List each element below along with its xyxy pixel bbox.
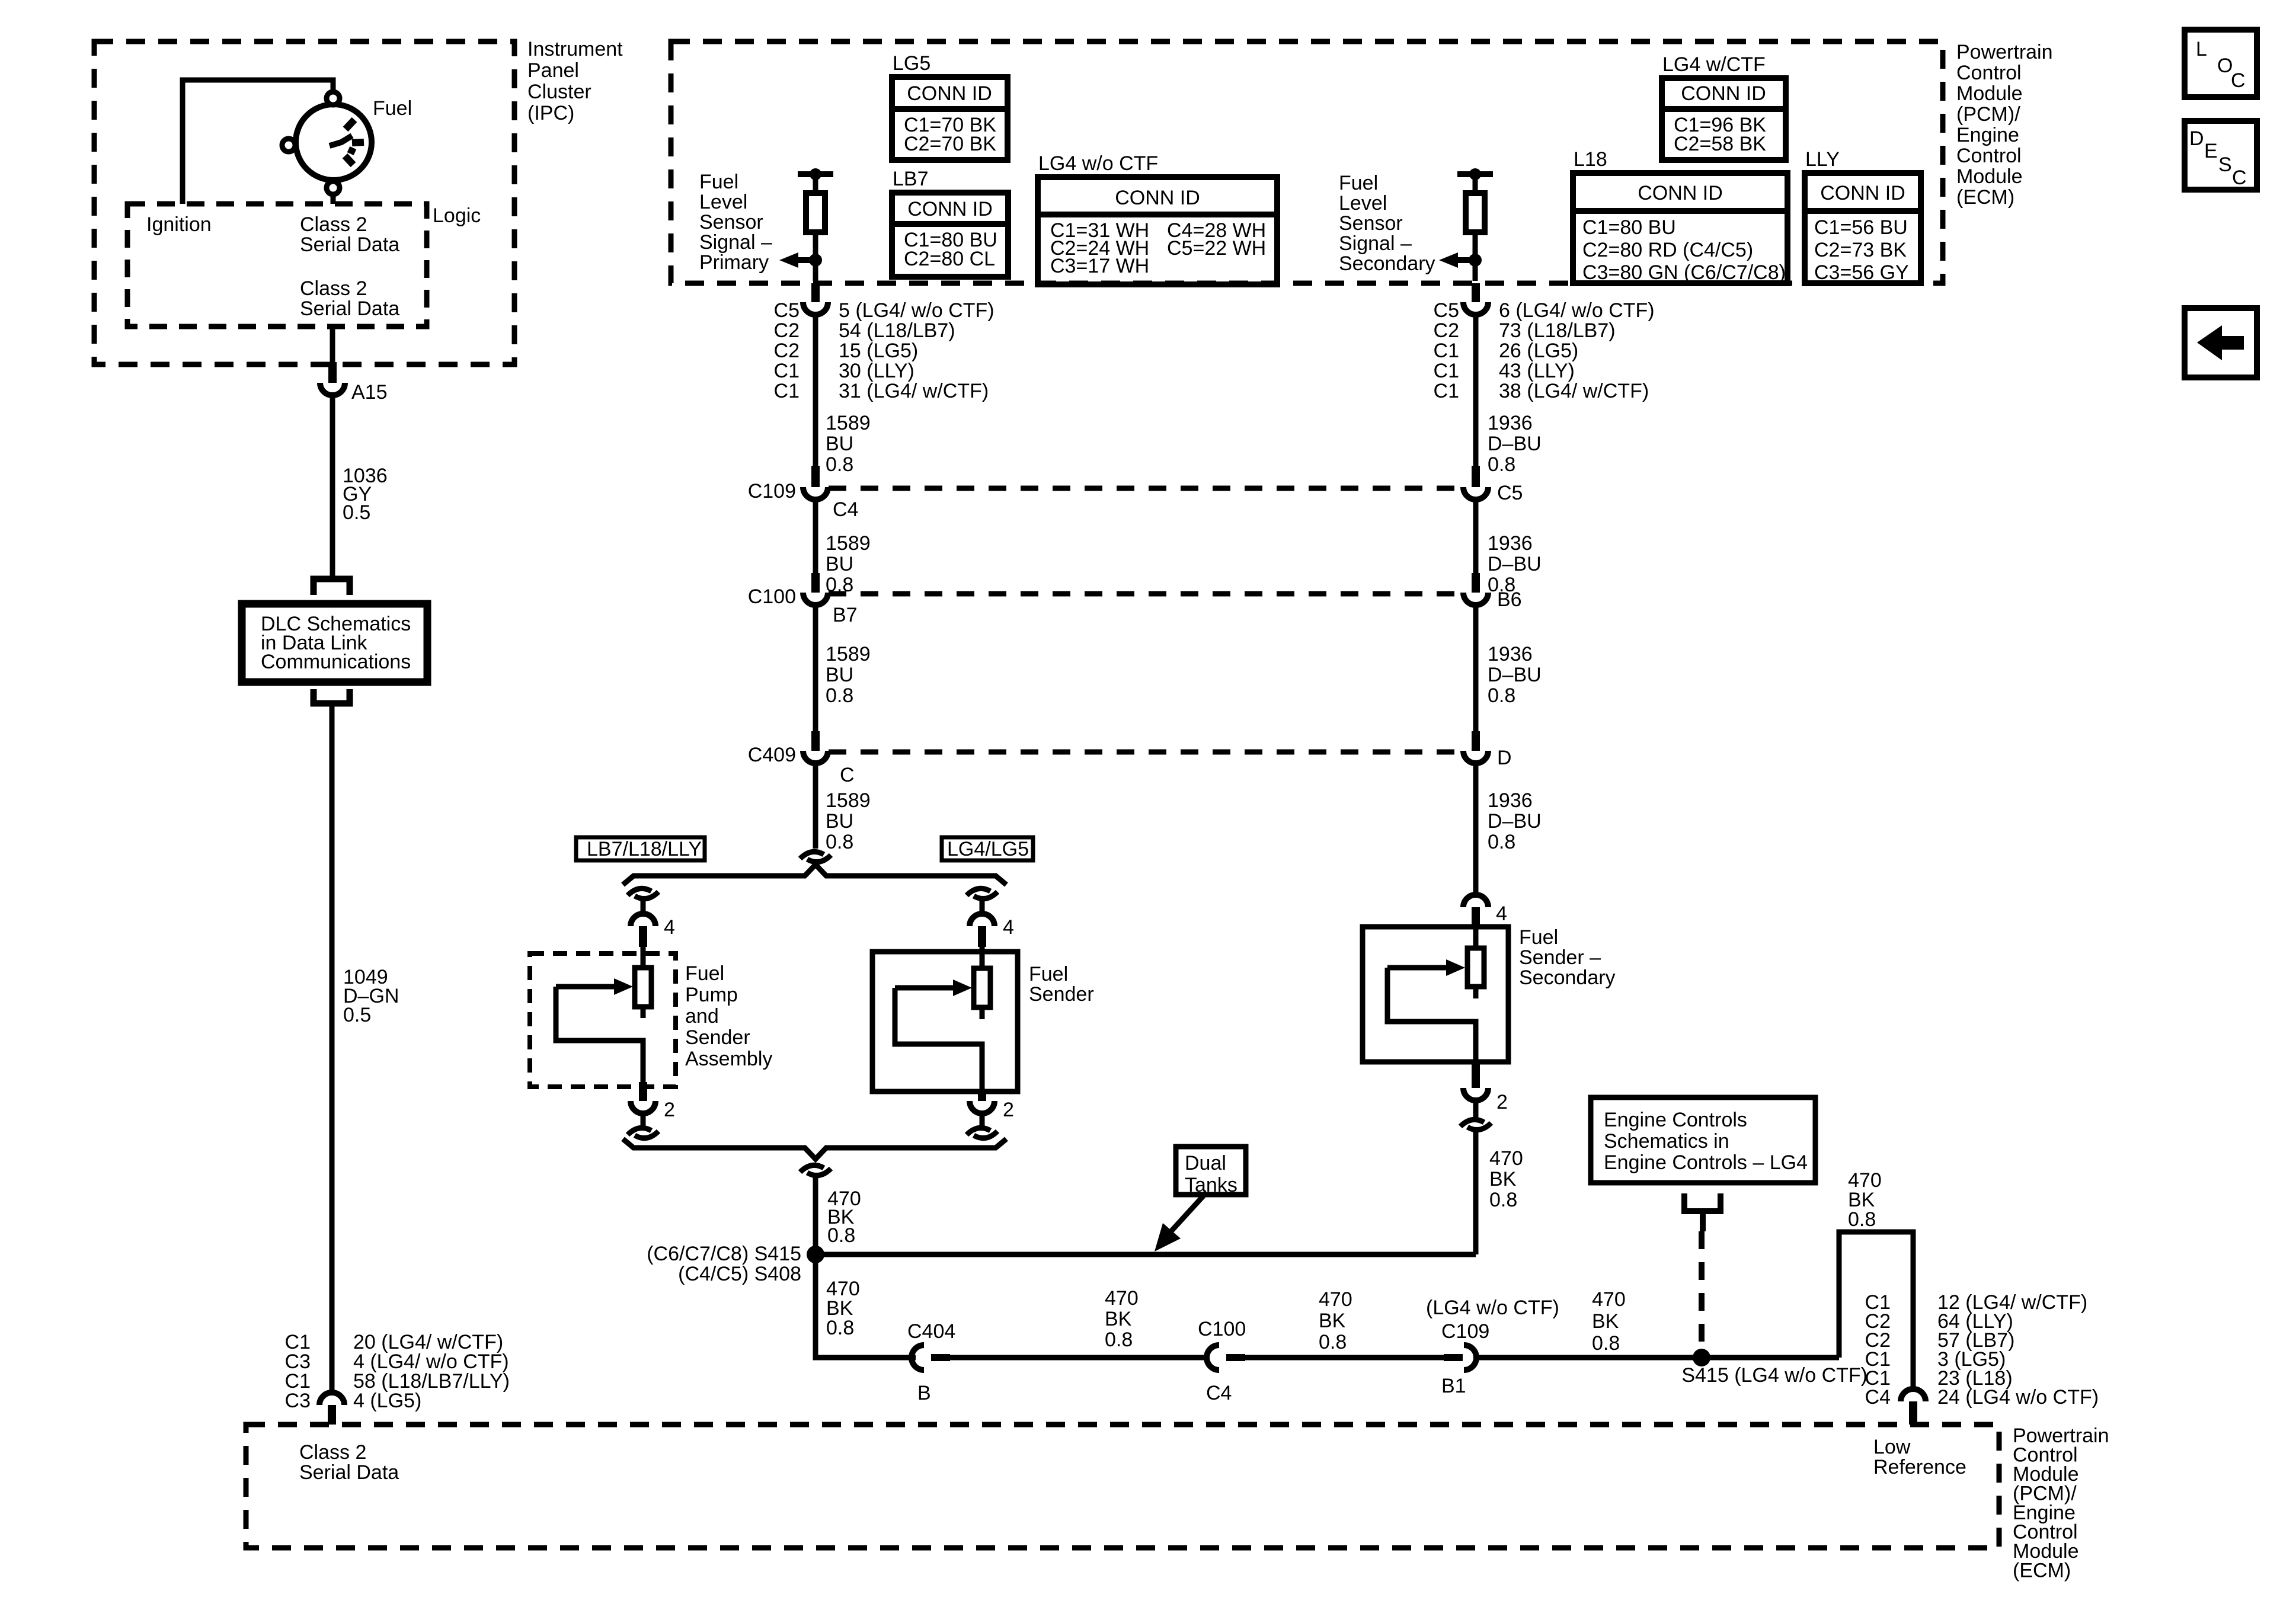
svg-text:470: 470	[1592, 1288, 1626, 1311]
fuel gauge G1 circle	[296, 104, 372, 180]
wire S415 to secondary sender (dual tanks)	[816, 1252, 1476, 1257]
Fuel Sender label	[1029, 963, 1094, 1006]
svg-text:0.8: 0.8	[1488, 831, 1515, 853]
C409 cup primary	[803, 751, 828, 763]
svg-text:C404: C404	[907, 1320, 955, 1343]
DLC off-page bracket bottom	[314, 689, 350, 703]
C409 stub primary	[811, 731, 820, 751]
middle branch lower wire break	[967, 1128, 990, 1135]
svg-text:Fuel: Fuel	[699, 171, 738, 193]
svg-text:C5: C5	[1434, 299, 1459, 322]
connector pin A15 stub	[328, 362, 337, 383]
svg-text:(C4/C5) S408: (C4/C5) S408	[678, 1263, 801, 1285]
secondary signal junction dot	[1469, 254, 1482, 267]
wire W1 A15 to DLC bracket, circuit 1036	[330, 395, 335, 577]
svg-text:and: and	[685, 1005, 719, 1028]
svg-text:Level: Level	[1339, 192, 1387, 215]
bottom PCM Class 2 Serial Data label	[299, 1441, 399, 1484]
primary pull-up resistor R1	[806, 193, 825, 232]
svg-text:LG4 w/o CTF: LG4 w/o CTF	[1038, 152, 1158, 175]
connector C404 stub	[931, 1354, 950, 1361]
svg-text:6 (LG4/ w/o CTF): 6 (LG4/ w/o CTF)	[1499, 299, 1655, 322]
dashed wire Engine Controls to S415	[1699, 1231, 1705, 1358]
splice S415/S408 junction dot	[807, 1246, 824, 1263]
C109 stub primary	[811, 466, 820, 487]
svg-text:Module: Module	[1956, 165, 2023, 188]
Class 2 Serial Data label (lower)	[300, 277, 399, 320]
secondary pin list right col	[1499, 299, 1655, 402]
secondary T-bar junction dot	[1469, 168, 1481, 180]
primary PCM connector cup C5	[803, 302, 828, 315]
svg-text:C1=56 BU: C1=56 BU	[1814, 216, 1908, 239]
D stub secondary	[1472, 731, 1480, 751]
gauge terminal top	[327, 92, 340, 105]
svg-text:Fuel: Fuel	[373, 97, 412, 120]
DLC Schematics reference box	[242, 604, 427, 682]
C100 stub primary	[811, 573, 820, 593]
wire into secondary sender box	[1473, 928, 1479, 950]
svg-text:C1: C1	[774, 380, 800, 402]
wire label 470 BK 0.8 (above S415)	[827, 1188, 861, 1247]
gauge terminal left	[282, 139, 295, 152]
svg-text:Fuel: Fuel	[685, 962, 724, 985]
pin 2 cup (left)	[631, 1101, 655, 1113]
bottom PCM/ECM label text	[2013, 1425, 2109, 1582]
svg-text:Class 2: Class 2	[300, 213, 367, 236]
svg-text:C2=80 CL: C2=80 CL	[904, 248, 995, 270]
svg-text:Sender: Sender	[1029, 983, 1094, 1006]
svg-text:0.8: 0.8	[1319, 1331, 1347, 1353]
secondary wire segment circuit 1936 (to C5)	[1473, 315, 1479, 466]
svg-text:C4: C4	[1206, 1382, 1232, 1404]
connector-ID table LG4 w/o CTF	[1038, 152, 1277, 284]
svg-text:C100: C100	[748, 585, 796, 608]
C109 cup primary	[803, 487, 828, 500]
left branch pin 4 dome	[631, 914, 655, 926]
low reference pin list right col	[1937, 1291, 2099, 1409]
fuel sender resistor (middle)	[974, 968, 990, 1007]
fuel pump sender wiper arrow (left)	[556, 978, 643, 1083]
wire into pump assembly	[641, 947, 646, 969]
svg-text:Primary: Primary	[699, 251, 769, 274]
svg-text:Cluster: Cluster	[527, 81, 591, 103]
primary wire pin stub at PCM C5	[811, 283, 820, 302]
wire S415 down leg	[816, 1254, 916, 1358]
svg-text:Communications: Communications	[261, 651, 411, 673]
svg-text:CONN ID: CONN ID	[1115, 187, 1200, 209]
connector-ID table L18	[1573, 148, 1787, 284]
svg-text:Fuel: Fuel	[1519, 926, 1558, 949]
Fuel Sender solid box	[872, 952, 1018, 1092]
svg-text:C4: C4	[833, 498, 858, 521]
svg-text:D–BU: D–BU	[1488, 433, 1542, 455]
svg-text:LG4 w/CTF: LG4 w/CTF	[1662, 53, 1766, 76]
svg-text:BK: BK	[1105, 1308, 1132, 1330]
svg-text:C5: C5	[774, 299, 800, 322]
svg-text:BU: BU	[826, 664, 853, 686]
svg-text:1589: 1589	[826, 643, 871, 665]
svg-text:1589: 1589	[826, 532, 871, 555]
svg-text:D–BU: D–BU	[1488, 553, 1542, 575]
wire label 1049 D-GN 0.5	[343, 966, 399, 1026]
secondary pin 2 stub	[1472, 1063, 1480, 1088]
primary pin list right col	[839, 299, 994, 402]
svg-text:1589: 1589	[826, 789, 871, 812]
wire B1 to right loop, circuit 470	[1476, 1355, 1839, 1361]
svg-text:B: B	[917, 1382, 931, 1404]
svg-text:4: 4	[664, 916, 675, 939]
svg-text:BK: BK	[1592, 1310, 1619, 1333]
svg-text:LG5: LG5	[893, 52, 930, 75]
svg-text:BU: BU	[826, 810, 853, 833]
svg-text:D: D	[2189, 127, 2204, 150]
svg-text:1936: 1936	[1488, 532, 1533, 555]
svg-text:C2=73 BK: C2=73 BK	[1814, 239, 1907, 261]
svg-text:CONN ID: CONN ID	[1820, 182, 1905, 204]
svg-text:43 (LLY): 43 (LLY)	[1499, 360, 1575, 382]
primary signal arrow	[779, 252, 816, 268]
wire label 1936 D-BU 0.8 (below D)	[1488, 789, 1542, 853]
svg-text:C: C	[840, 764, 855, 786]
PCM/ECM label text (top right)	[1956, 41, 2053, 209]
Powertrain Control Module dashed box (top)	[671, 41, 1943, 283]
svg-text:C5=22 WH: C5=22 WH	[1167, 237, 1266, 260]
svg-text:C1: C1	[1434, 380, 1459, 402]
svg-text:470: 470	[1105, 1287, 1139, 1310]
middle branch wire break	[967, 888, 990, 895]
svg-text:(C6/C7/C8) S415: (C6/C7/C8) S415	[647, 1243, 801, 1265]
wire pin2 to break (middle)	[980, 1113, 985, 1129]
pin 2 cup (middle)	[970, 1101, 994, 1113]
svg-text:C1=80 BU: C1=80 BU	[1582, 216, 1676, 239]
svg-text:Engine: Engine	[1956, 124, 2019, 146]
primary wire segment (C109 to C100)	[813, 499, 818, 573]
primary T-bar junction dot	[810, 168, 821, 180]
Fuel Level Sensor Signal - Secondary label	[1339, 172, 1435, 275]
wire label 1036 GY 0.5	[343, 465, 388, 524]
connector-ID table LG4 w/CTF	[1662, 53, 1786, 160]
svg-text:0.8: 0.8	[1592, 1332, 1620, 1355]
secondary pin 2 cup	[1463, 1088, 1488, 1100]
IPC label text	[527, 38, 623, 124]
low reference pin list left col	[1865, 1291, 1891, 1409]
class 2 pin stub into PCM	[328, 1405, 336, 1425]
wire label 1936 D-BU 0.8 (B6-D)	[1488, 643, 1542, 707]
Fuel Sender - Secondary label	[1519, 926, 1616, 989]
wire break below merge bracket	[800, 1165, 824, 1172]
wire label 1589 BU 0.8 (C100-C409)	[826, 643, 871, 707]
secondary internal wire	[1473, 174, 1478, 281]
primary internal wire	[813, 174, 818, 281]
svg-text:C100: C100	[1198, 1318, 1246, 1340]
svg-text:D–BU: D–BU	[1488, 664, 1542, 686]
svg-text:Panel: Panel	[527, 59, 579, 82]
svg-text:0.8: 0.8	[1848, 1208, 1876, 1231]
svg-text:C2: C2	[774, 319, 800, 342]
svg-text:4 (LG5): 4 (LG5)	[353, 1390, 421, 1412]
svg-text:C2=80 RD (C4/C5): C2=80 RD (C4/C5)	[1582, 239, 1753, 261]
svg-text:Module: Module	[1956, 82, 2023, 105]
pin 4 stub (left)	[639, 926, 647, 947]
svg-text:0.8: 0.8	[826, 453, 853, 476]
secondary sender resistor	[1467, 948, 1484, 987]
wire logic box to IPC edge	[330, 327, 335, 363]
svg-text:Sensor: Sensor	[1339, 212, 1403, 235]
primary pin list left col	[774, 299, 800, 402]
secondary PCM connector cup C5	[1463, 302, 1488, 315]
LOC legend box	[2185, 30, 2257, 97]
dashed link C100 row	[829, 591, 1463, 597]
svg-text:(IPC): (IPC)	[527, 102, 574, 124]
pin 4 stub (middle)	[978, 926, 986, 947]
svg-text:0.5: 0.5	[343, 501, 370, 524]
svg-text:0.5: 0.5	[343, 1004, 371, 1026]
left branch lower wire break	[628, 1128, 651, 1135]
C109 (LG4 w/o CTF) labels	[1426, 1297, 1559, 1343]
C109 row stub secondary	[1472, 466, 1480, 487]
primary wire segment (C409 to split)	[813, 763, 818, 849]
fuel gauge needle and ticks	[330, 120, 364, 165]
svg-text:2: 2	[1003, 1099, 1014, 1121]
Dual Tanks callout box	[1176, 1147, 1246, 1196]
Engine Controls Schematics reference box	[1591, 1097, 1815, 1183]
dashed link C409 row	[829, 750, 1463, 755]
svg-text:0.8: 0.8	[1488, 453, 1515, 476]
left branch wire to pin 4	[641, 898, 646, 914]
svg-text:Control: Control	[1956, 145, 2022, 167]
svg-text:BU: BU	[826, 433, 853, 455]
svg-text:Engine Controls – LG4: Engine Controls – LG4	[1604, 1151, 1808, 1174]
connector C109/B1 cup	[1464, 1345, 1476, 1370]
secondary lower wire break	[1460, 1119, 1484, 1126]
svg-text:BU: BU	[826, 553, 853, 575]
pin 2 stub (left)	[639, 1082, 647, 1101]
svg-text:Tanks: Tanks	[1185, 1174, 1237, 1196]
svg-text:L: L	[2196, 38, 2207, 60]
Engine Controls off-page bracket	[1684, 1193, 1721, 1211]
Fuel Pump and Sender Assembly label	[685, 962, 772, 1070]
svg-text:C2: C2	[1434, 319, 1459, 342]
svg-text:Fuel: Fuel	[1339, 172, 1378, 194]
middle branch wire to pin 4	[980, 898, 985, 914]
svg-text:Signal –: Signal –	[1339, 232, 1412, 255]
svg-text:C1: C1	[1434, 360, 1459, 382]
svg-text:470: 470	[1489, 1147, 1523, 1170]
svg-text:C3=17 WH: C3=17 WH	[1050, 255, 1149, 277]
wire into sender box (middle)	[980, 947, 985, 969]
secondary pin 4 stub	[1472, 907, 1480, 928]
wire break above split bracket	[800, 852, 824, 859]
wire pin2 to break (left)	[641, 1113, 646, 1129]
wire W1 DLC to PCM, circuit 1049	[330, 703, 335, 1391]
primary signal junction dot	[809, 254, 822, 267]
engine-variant split bracket (top)	[623, 865, 1006, 885]
wire label 470 BK 0.8 (below S415)	[826, 1278, 860, 1339]
splice labels S415 S408	[647, 1243, 801, 1285]
resistor bottom lead (left)	[641, 1007, 646, 1018]
Dual Tanks callout arrow	[1155, 1192, 1207, 1251]
D cup secondary	[1463, 751, 1488, 763]
svg-text:B7: B7	[833, 604, 858, 626]
svg-text:LG4/LG5: LG4/LG5	[947, 838, 1029, 860]
B6 stub secondary	[1472, 573, 1480, 593]
svg-text:26 (LG5): 26 (LG5)	[1499, 340, 1578, 362]
primary wire segment circuit 1589 (to C109)	[813, 315, 818, 466]
wire label 470 BK 0.8 (C100-C109)	[1319, 1288, 1352, 1353]
secondary pull-up resistor R2	[1466, 193, 1485, 232]
svg-text:4: 4	[1496, 902, 1507, 925]
svg-text:L18: L18	[1574, 148, 1607, 171]
svg-text:Class 2: Class 2	[299, 1441, 366, 1464]
Fuel Level Sensor Signal - Primary label	[699, 171, 772, 274]
secondary pin 4 dome	[1463, 895, 1488, 907]
svg-text:4: 4	[1003, 916, 1014, 939]
svg-text:C: C	[2232, 167, 2247, 189]
svg-text:0.8: 0.8	[1105, 1329, 1133, 1351]
svg-text:0.8: 0.8	[1489, 1189, 1517, 1211]
svg-text:D–BU: D–BU	[1488, 810, 1542, 833]
secondary pin list left col	[1434, 299, 1459, 402]
svg-text:B1: B1	[1441, 1375, 1466, 1397]
svg-text:C109: C109	[1441, 1320, 1489, 1343]
svg-text:Serial Data: Serial Data	[300, 297, 399, 320]
fuel pump sender resistor (left)	[635, 968, 651, 1007]
svg-text:Sender –: Sender –	[1519, 946, 1601, 969]
C100 cup primary	[803, 593, 828, 605]
Class 2 Serial Data label (upper)	[300, 213, 399, 256]
svg-text:1936: 1936	[1488, 643, 1533, 665]
svg-text:CONN ID: CONN ID	[907, 198, 993, 220]
svg-text:Sender: Sender	[685, 1026, 750, 1049]
svg-text:S: S	[2218, 153, 2232, 176]
svg-text:E: E	[2204, 140, 2218, 162]
fuel sender wiper arrow (middle)	[895, 980, 982, 1093]
svg-text:Schematics in: Schematics in	[1604, 1130, 1729, 1153]
svg-text:CONN ID: CONN ID	[1681, 82, 1766, 105]
Engine Controls box text	[1604, 1109, 1808, 1174]
svg-text:Powertrain: Powertrain	[1956, 41, 2053, 63]
secondary wire down to dual-tank tie, circuit 470	[1473, 1129, 1479, 1254]
wire gauge bottom to logic box	[331, 194, 336, 204]
wire label 470 BK 0.8 (C404-C100)	[1105, 1287, 1139, 1351]
svg-text:C3=56 GY: C3=56 GY	[1814, 261, 1909, 284]
svg-text:470: 470	[1319, 1288, 1352, 1311]
svg-text:0.8: 0.8	[826, 1317, 854, 1339]
svg-text:24 (LG4 w/o CTF): 24 (LG4 w/o CTF)	[1937, 1386, 2099, 1409]
svg-text:BK: BK	[1489, 1168, 1517, 1190]
wire C404 to C100, circuit 470	[950, 1355, 1207, 1361]
svg-text:C3: C3	[285, 1390, 311, 1412]
secondary wire segment (C5 to B6)	[1473, 499, 1479, 573]
svg-text:1589: 1589	[826, 412, 871, 434]
svg-text:30 (LLY): 30 (LLY)	[839, 360, 914, 382]
svg-text:Serial Data: Serial Data	[299, 1461, 399, 1484]
pin 2 stub (middle)	[978, 1093, 986, 1101]
wire label 470 BK 0.8 (secondary)	[1489, 1147, 1523, 1211]
svg-text:C3=80 GN (C6/C7/C8): C3=80 GN (C6/C7/C8)	[1582, 261, 1786, 284]
svg-text:(ECM): (ECM)	[2013, 1560, 2071, 1582]
svg-text:5 (LG4/ w/o CTF): 5 (LG4/ w/o CTF)	[839, 299, 994, 322]
secondary signal arrow	[1439, 252, 1475, 268]
wire label 1936 D-BU 0.8 (above C5)	[1488, 412, 1542, 476]
svg-text:1936: 1936	[1488, 412, 1533, 434]
secondary sensor internal T-bar	[1457, 171, 1493, 177]
connector-ID table LLY	[1805, 148, 1921, 284]
wire C100 to C109, circuit 470	[1245, 1355, 1444, 1361]
svg-text:31 (LG4/ w/CTF): 31 (LG4/ w/CTF)	[839, 380, 989, 402]
wire circuit 470 to S415/S408	[813, 1175, 818, 1254]
svg-text:0.8: 0.8	[826, 831, 853, 853]
svg-text:C2: C2	[774, 340, 800, 362]
connector C109/B1 stub (bottom run)	[1444, 1354, 1463, 1361]
svg-text:C409: C409	[748, 744, 796, 766]
svg-text:A15: A15	[351, 381, 388, 404]
PCM class-2 pin list right column	[353, 1331, 510, 1412]
svg-text:0.8: 0.8	[827, 1224, 855, 1247]
gauge terminal bottom	[327, 181, 340, 194]
svg-text:Fuel: Fuel	[1029, 963, 1068, 985]
svg-text:D: D	[1497, 747, 1512, 769]
svg-text:Serial Data: Serial Data	[300, 233, 399, 256]
Low Reference label	[1873, 1436, 1966, 1478]
wire pin2 to break (secondary)	[1473, 1100, 1479, 1120]
right loop wire to PCM low reference	[1839, 1232, 1913, 1389]
B6 cup secondary	[1463, 593, 1488, 605]
resistor bottom lead (middle)	[980, 1007, 985, 1019]
C5 cup secondary	[1463, 487, 1488, 500]
svg-text:1936: 1936	[1488, 789, 1533, 812]
svg-text:Dual: Dual	[1185, 1152, 1226, 1174]
resistor bottom lead (secondary)	[1473, 987, 1479, 998]
svg-text:CONN ID: CONN ID	[907, 82, 992, 105]
svg-text:LB7/L18/LLY: LB7/L18/LLY	[587, 838, 702, 860]
svg-text:Reference: Reference	[1873, 1456, 1966, 1478]
svg-text:(ECM): (ECM)	[1956, 186, 2014, 209]
svg-text:38 (LG4/ w/CTF): 38 (LG4/ w/CTF)	[1499, 380, 1649, 402]
secondary sender wiper arrow	[1387, 959, 1476, 1063]
svg-text:B6: B6	[1497, 588, 1522, 611]
wire from gauge top to Ignition input	[183, 80, 333, 204]
svg-text:Signal –: Signal –	[699, 231, 772, 254]
svg-text:Low: Low	[1873, 1436, 1911, 1458]
svg-text:Sensor: Sensor	[699, 211, 763, 233]
connector C100 cup (bottom run)	[1207, 1345, 1219, 1370]
Engine Controls bracket stem	[1700, 1211, 1706, 1231]
svg-text:LLY: LLY	[1805, 148, 1840, 171]
svg-text:C2=58 BK: C2=58 BK	[1674, 133, 1766, 155]
svg-text:(LG4 w/o CTF): (LG4 w/o CTF)	[1426, 1297, 1559, 1319]
low reference pin stub	[1909, 1401, 1917, 1425]
wire label 1589 BU 0.8 (C109-C100)	[826, 532, 871, 596]
connector A15 cup	[320, 383, 345, 395]
primary wire segment (C100 to C409)	[813, 604, 818, 731]
svg-text:C4: C4	[1865, 1386, 1891, 1409]
svg-text:Class 2: Class 2	[300, 277, 367, 300]
secondary wire pin stub at PCM C5	[1472, 283, 1480, 302]
wire label 1589 BU 0.8 (above C109)	[826, 412, 871, 476]
svg-text:Engine Controls: Engine Controls	[1604, 1109, 1747, 1131]
low reference connector dome C4-24	[1901, 1389, 1926, 1401]
wire label 1589 BU 0.8 (below C409)	[826, 789, 871, 853]
connector-ID table LB7	[892, 168, 1008, 277]
boxed label LG4/LG5	[942, 837, 1033, 860]
svg-text:CONN ID: CONN ID	[1638, 182, 1723, 204]
svg-text:Control: Control	[1956, 62, 2022, 84]
Logic dashed box	[127, 204, 427, 327]
PCM class-2 pin list left column	[285, 1331, 311, 1412]
svg-text:BK: BK	[1319, 1310, 1346, 1332]
svg-text:C2=70 BK: C2=70 BK	[904, 133, 996, 155]
